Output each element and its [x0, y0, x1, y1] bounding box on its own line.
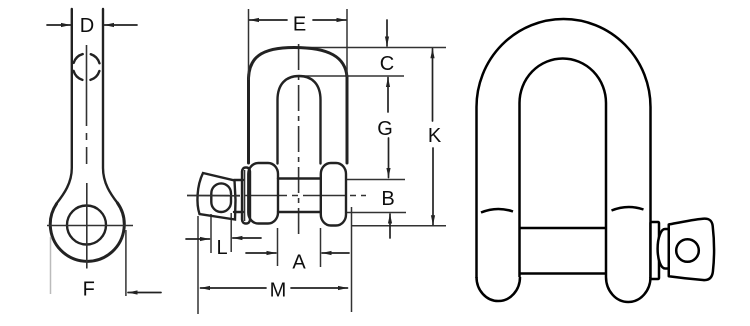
svg-text:D: D: [80, 15, 94, 37]
svg-text:A: A: [292, 252, 306, 274]
svg-text:C: C: [380, 53, 394, 75]
svg-text:B: B: [381, 188, 394, 210]
svg-text:E: E: [293, 14, 306, 36]
svg-text:L: L: [216, 237, 227, 259]
svg-text:G: G: [377, 118, 393, 140]
svg-text:F: F: [83, 279, 95, 301]
svg-text:M: M: [270, 280, 287, 302]
svg-text:K: K: [428, 125, 442, 147]
